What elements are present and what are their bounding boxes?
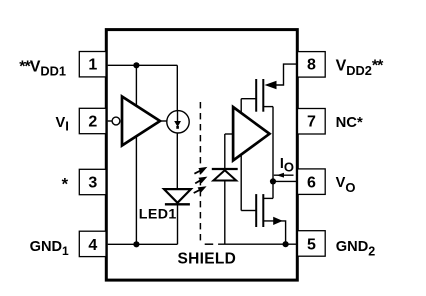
wire buffer output to current source (160, 120, 167, 122)
svg-text:LED1: LED1 (139, 206, 177, 222)
wire GND1 pin4 to LED cathode (108, 243, 178, 245)
svg-text:5: 5 (307, 237, 316, 254)
svg-text:3: 3 (88, 175, 97, 192)
output amp A2 (233, 107, 269, 161)
wire NMOS source (263, 221, 285, 244)
node output junction dot (270, 178, 276, 184)
wire photodiode/amp input vertical (224, 134, 226, 244)
light arrow 2 (195, 177, 207, 184)
current source internal arrow (177, 111, 179, 123)
wire current source feed vertical (176, 65, 178, 189)
transistor Q1 PMOS gate bar (255, 79, 257, 112)
transistor Q1 PMOS channel bar (262, 79, 264, 112)
wire gate vertical through amp (240, 99, 242, 211)
svg-text:IO: IO (280, 156, 294, 175)
pin 3 box (79, 169, 106, 194)
wire output node vertical (272, 107, 274, 199)
pin 2 box (79, 108, 106, 133)
wire vdd1/gnd1 vertical through buffer (135, 65, 137, 244)
wire NMOS drain stub (263, 197, 273, 199)
wire output node to pin 6 (273, 180, 297, 182)
pin 4 box (79, 231, 106, 256)
pin 7 box (298, 109, 326, 135)
svg-text:1: 1 (88, 57, 97, 74)
transistor Q2 NMOS gate bar (255, 194, 257, 227)
pin 1 box (79, 52, 106, 77)
LED1 diode (164, 189, 191, 203)
pin 8 box (298, 52, 326, 78)
wire PMOS drain stub (263, 106, 273, 108)
svg-text:VI: VI (56, 115, 69, 133)
photodiode PD1 cathode bar (212, 168, 238, 170)
svg-text:8: 8 (307, 57, 316, 74)
wire PMOS gate horizontal (241, 98, 256, 100)
svg-text:SHIELD: SHIELD (178, 250, 237, 267)
svg-text:2: 2 (88, 114, 97, 131)
node junction dot on pin1 wire (133, 62, 139, 68)
svg-text:6: 6 (307, 175, 316, 192)
node junction dot on GND1 wire (133, 241, 139, 247)
shield bottom dash (205, 243, 214, 245)
svg-text:NC*: NC* (336, 115, 363, 131)
node GND2 junction dot (283, 241, 289, 247)
wire NMOS gate horizontal (241, 210, 256, 212)
light arrow 1 (194, 167, 207, 174)
transistor Q2 NMOS channel bar (262, 194, 264, 227)
transistor Q2 NMOS source arrow (273, 217, 283, 225)
photodiode PD1 triangle (213, 170, 236, 180)
wire PMOS source to pin 8 (276, 64, 297, 85)
wire pin1 to current source (108, 64, 178, 66)
package outline U1 (106, 30, 297, 281)
transistor Q1 PMOS source arrow (265, 81, 277, 90)
current source I1 circle (167, 111, 189, 133)
shield dashed line (199, 102, 201, 241)
light arrow 3 (194, 186, 207, 193)
svg-text:*: * (62, 176, 69, 194)
pin 6 box (298, 169, 326, 195)
svg-text:7: 7 (307, 114, 316, 131)
svg-text:4: 4 (88, 237, 97, 254)
input bubble (112, 117, 120, 125)
pin 5 box (298, 231, 326, 257)
wire LED to GND1 (177, 205, 179, 244)
wire amp input stub (225, 133, 233, 135)
wire GND2 rail (218, 243, 297, 245)
LED1 cathode bar (165, 203, 190, 205)
buffer amp A1 (122, 97, 160, 146)
IO current arrow (274, 174, 294, 176)
wire pin2 stub (108, 120, 112, 122)
